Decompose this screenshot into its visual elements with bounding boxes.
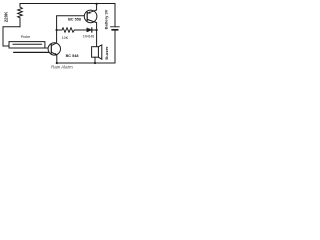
probe inner electrode: [13, 43, 42, 45]
resistor R2 10K horizontal zigzag: [57, 28, 87, 32]
transistor Q1 collector: [51, 30, 56, 46]
svg-text:220K: 220K: [4, 11, 9, 22]
svg-text:Buzzer: Buzzer: [104, 46, 109, 60]
node junction Q1 emitter / bottom rail: [56, 62, 58, 64]
node junction diode / buzzer line: [96, 29, 98, 31]
wire top rail: [20, 3, 115, 5]
wire left branch: [3, 27, 20, 46]
buzzer LS1 body: [92, 47, 99, 58]
svg-text:10K: 10K: [62, 36, 69, 40]
probe bottom electrode / base wire: [9, 47, 51, 49]
wire diode to collector line: [92, 29, 97, 31]
svg-text:BC 548: BC 548: [66, 54, 79, 58]
node junction Q2 emitter / top rail: [96, 3, 98, 5]
wire bottom rail: [57, 62, 115, 64]
probe lower plate: [14, 51, 49, 53]
transistor Q2 BC558 circle: [84, 10, 97, 23]
wire right edge lower: [114, 31, 116, 63]
probe sensor box: [9, 42, 45, 48]
buzzer cone: [98, 45, 101, 59]
node junction feedback tap: [56, 29, 58, 31]
resistor R1 220K vertical zigzag: [18, 4, 23, 27]
transistor Q1 emitter with arrow: [51, 52, 57, 55]
svg-text:1N4148: 1N4148: [83, 35, 94, 39]
transistor Q2 collector: [87, 19, 96, 46]
svg-text:Battery 3V: Battery 3V: [104, 9, 109, 29]
wire right edge upper: [114, 4, 116, 27]
node junction buzzer / bottom rail: [94, 62, 96, 64]
transistor Q2 base bar: [86, 12, 88, 20]
wire buzzer to bottom rail: [94, 57, 96, 63]
battery B1: [111, 26, 120, 28]
transistor Q2 emitter with arrow (PNP): [87, 4, 96, 14]
wire Q1 collector to Q2 base: [57, 16, 88, 30]
transistor Q1 BC548 circle: [48, 43, 60, 55]
svg-text:BC 558: BC 558: [68, 17, 81, 21]
svg-text:Probe: Probe: [21, 35, 31, 39]
wire Q1 emitter down: [56, 55, 58, 63]
svg-text:Rain Alarm: Rain Alarm: [51, 65, 73, 70]
transistor Q1 base bar: [50, 45, 52, 53]
diode D1 1N4148: [87, 28, 92, 32]
